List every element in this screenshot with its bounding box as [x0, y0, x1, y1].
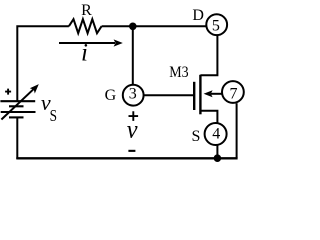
node circle 7: [222, 81, 244, 103]
body arrow from circle 7 into channel: [211, 93, 222, 95]
node junction dot top: [129, 23, 137, 31]
wire drain: channel top right then up to circle 5: [200, 36, 217, 75]
transistor M3 gate bar: [193, 82, 195, 110]
current arrow i: [59, 42, 115, 44]
svg-text:G: G: [105, 87, 117, 104]
wire source: channel bottom right then down to circle 4: [200, 111, 217, 123]
battery short plate 1: [9, 105, 24, 107]
svg-text:S: S: [191, 128, 200, 145]
svg-text:M3: M3: [169, 64, 188, 81]
wire gate from circle 3 to gate bar: [144, 94, 194, 96]
node D circle 5: [206, 14, 227, 35]
svg-text:3: 3: [129, 86, 137, 103]
label + of source: [5, 89, 11, 95]
resistor R: [69, 19, 102, 33]
svg-text:7: 7: [230, 86, 238, 103]
svg-text:R: R: [81, 2, 92, 19]
svg-text:S: S: [50, 106, 57, 125]
wire left rail bottom below battery: [16, 117, 18, 159]
svg-text:i: i: [81, 39, 88, 66]
wire from circle 7 down to bottom rail: [236, 103, 238, 158]
node S circle 4: [205, 123, 227, 145]
wire top from resistor to node D circle: [102, 25, 207, 27]
wire bottom rail: [16, 157, 237, 159]
svg-text:5: 5: [212, 18, 220, 35]
node junction dot bottom: [214, 154, 222, 162]
svg-text:D: D: [192, 7, 204, 24]
battery source vS long plate 1: [0, 100, 35, 102]
transistor M3 channel bar: [199, 75, 201, 115]
svg-text:v: v: [127, 117, 139, 144]
wire top-left: left rail top and top wire to resistor: [17, 26, 69, 101]
label + above v: [129, 111, 139, 121]
wire from circle 4 down to bottom rail: [216, 145, 218, 158]
variable source diagonal arrow: [1, 89, 33, 119]
node G circle 3: [123, 85, 144, 106]
svg-text:4: 4: [212, 126, 220, 143]
wire from top dot down to node G circle: [132, 26, 134, 84]
label - below v: [128, 150, 135, 152]
battery long plate 2: [1, 111, 36, 113]
battery short plate 2: [9, 116, 24, 118]
